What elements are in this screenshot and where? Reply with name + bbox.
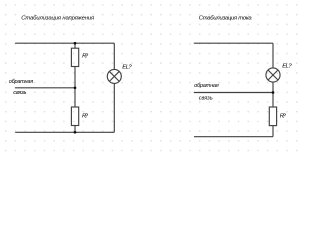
svg-text:R?: R? [82,113,89,119]
svg-text:обратная: обратная [194,83,219,89]
svg-text:Стабилизация напряжения: Стабилизация напряжения [21,15,95,21]
svg-text:связь: связь [199,96,213,102]
svg-text:связь: связь [13,90,26,96]
svg-text:R?: R? [82,54,89,60]
svg-text:обратная: обратная [9,79,33,85]
svg-text:Стабилизация тока: Стабилизация тока [199,15,253,21]
svg-text:EL?: EL? [282,64,292,70]
svg-text:EL?: EL? [122,64,132,70]
svg-text:R?: R? [280,113,287,119]
